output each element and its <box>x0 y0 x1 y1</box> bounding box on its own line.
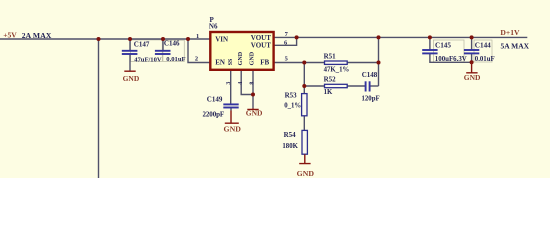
svg-text:GND: GND <box>297 169 315 178</box>
svg-text:100uF6.3V: 100uF6.3V <box>435 56 467 63</box>
svg-text:47uF/10V: 47uF/10V <box>134 56 162 63</box>
svg-text:R52: R52 <box>324 75 337 83</box>
svg-text:GND: GND <box>464 73 481 82</box>
svg-text:C149: C149 <box>207 95 223 103</box>
svg-text:R51: R51 <box>324 52 337 60</box>
svg-text:5: 5 <box>285 55 288 62</box>
svg-text:FB: FB <box>260 59 269 67</box>
svg-text:C145: C145 <box>435 41 451 49</box>
svg-text:2: 2 <box>195 55 198 62</box>
svg-text:0_1%: 0_1% <box>284 103 301 110</box>
svg-text:R54: R54 <box>284 131 297 139</box>
svg-text:R53: R53 <box>285 91 298 99</box>
svg-text:GND: GND <box>224 125 242 134</box>
svg-text:C148: C148 <box>362 71 378 79</box>
svg-text:1: 1 <box>196 33 199 40</box>
svg-text:VOUT: VOUT <box>251 42 271 50</box>
svg-text:4: 4 <box>238 82 244 85</box>
svg-text:0.01uF: 0.01uF <box>166 56 185 63</box>
svg-text:D+1V: D+1V <box>500 28 520 37</box>
svg-text:VIN: VIN <box>215 36 228 44</box>
svg-text:GND: GND <box>246 109 263 118</box>
svg-text:+5V: +5V <box>3 30 17 39</box>
svg-text:180K: 180K <box>282 143 298 150</box>
svg-text:N6: N6 <box>209 22 218 30</box>
svg-text:EN: EN <box>215 59 225 67</box>
svg-text:SS: SS <box>228 58 234 65</box>
svg-text:2200pF: 2200pF <box>203 110 225 118</box>
svg-text:2A MAX: 2A MAX <box>22 31 52 40</box>
svg-text:8: 8 <box>249 82 255 85</box>
svg-text:GND: GND <box>123 74 140 83</box>
svg-text:C146: C146 <box>164 39 180 47</box>
svg-text:1K: 1K <box>324 89 333 96</box>
svg-text:C144: C144 <box>475 41 491 49</box>
svg-text:GND: GND <box>249 51 255 65</box>
svg-text:C147: C147 <box>134 40 150 48</box>
svg-text:3: 3 <box>226 82 232 85</box>
svg-text:0.01uF: 0.01uF <box>475 56 495 63</box>
svg-text:47K_1%: 47K_1% <box>324 67 350 74</box>
svg-text:5A MAX: 5A MAX <box>501 41 530 50</box>
svg-text:120pF: 120pF <box>362 96 380 103</box>
svg-text:GND: GND <box>238 51 244 65</box>
